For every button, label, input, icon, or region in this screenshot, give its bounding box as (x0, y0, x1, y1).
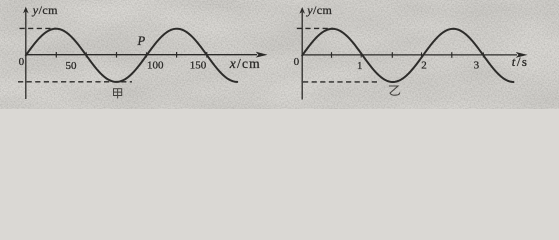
tick 1 (360, 52, 362, 57)
tick 25 (55, 52, 57, 58)
svg-text:x/cm: x/cm (229, 56, 261, 71)
label yi (drawn glyph) (389, 86, 400, 95)
x-axis arrowhead (256, 52, 268, 58)
x-axis (302, 54, 517, 56)
svg-text:150: 150 (190, 60, 207, 72)
svg-text:1: 1 (357, 60, 363, 72)
svg-text:0: 0 (19, 56, 25, 68)
lower amplitude dashed line (18, 81, 132, 83)
tick 2.5 (451, 52, 453, 58)
svg-text:50: 50 (66, 60, 78, 72)
y-axis (301, 12, 303, 100)
wave curve (302, 29, 513, 82)
tick 100 (146, 52, 148, 57)
paper background (0, 0, 559, 109)
lower amplitude dashed line (303, 81, 378, 83)
svg-text:y/cm: y/cm (306, 3, 332, 17)
svg-text:3: 3 (474, 60, 480, 72)
svg-text:100: 100 (147, 60, 164, 72)
tick 0.5 (331, 52, 333, 58)
tick 75 (116, 52, 118, 58)
svg-text:0: 0 (294, 56, 300, 68)
tick 125 (176, 52, 178, 58)
y-axis arrowhead (299, 7, 305, 14)
x-axis (26, 54, 257, 56)
svg-text:2: 2 (421, 60, 427, 72)
svg-text:t/s: t/s (512, 54, 529, 69)
svg-text:P: P (137, 34, 146, 48)
tick 2 (421, 52, 423, 57)
upper amplitude dashed line (297, 27, 333, 29)
wave curve (26, 29, 237, 82)
y-axis arrowhead (23, 7, 29, 14)
label jia (drawn glyph) (114, 89, 122, 99)
tick 1.5 (391, 52, 393, 58)
upper amplitude dashed line (20, 27, 57, 29)
x-axis arrowhead (516, 52, 528, 58)
y-axis (25, 12, 27, 100)
tick 3 (482, 52, 484, 57)
tick 50 (85, 52, 87, 57)
svg-text:y/cm: y/cm (32, 3, 58, 17)
tick 150 (206, 52, 208, 58)
